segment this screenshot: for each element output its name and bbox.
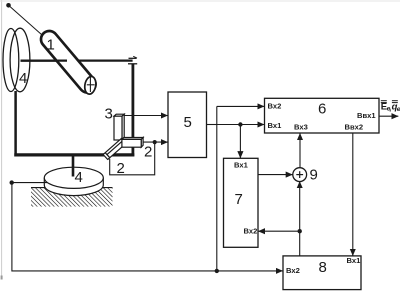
svg-text:5: 5 xyxy=(184,114,192,131)
svg-text:Вх2: Вх2 xyxy=(286,266,300,275)
svg-text:4: 4 xyxy=(19,70,27,87)
svg-text:Вх2: Вх2 xyxy=(268,102,282,111)
svg-text:Вх1: Вх1 xyxy=(234,160,249,169)
svg-text:Ввх2: Ввх2 xyxy=(345,123,364,132)
svg-text:3: 3 xyxy=(105,106,113,123)
svg-text:4: 4 xyxy=(75,169,83,186)
svg-text:Вх1: Вх1 xyxy=(268,121,283,130)
svg-text:Ввх1: Ввх1 xyxy=(357,111,376,120)
svg-text:Вх1: Вх1 xyxy=(347,256,362,265)
svg-text:7: 7 xyxy=(235,191,243,208)
svg-text:1: 1 xyxy=(47,37,55,54)
svg-text:8: 8 xyxy=(319,259,327,276)
svg-text:6: 6 xyxy=(318,101,326,118)
svg-text:Вх3: Вх3 xyxy=(294,123,308,132)
svg-text:2: 2 xyxy=(144,144,152,161)
svg-text:9: 9 xyxy=(310,167,318,184)
svg-text:Вх2: Вх2 xyxy=(244,226,258,235)
